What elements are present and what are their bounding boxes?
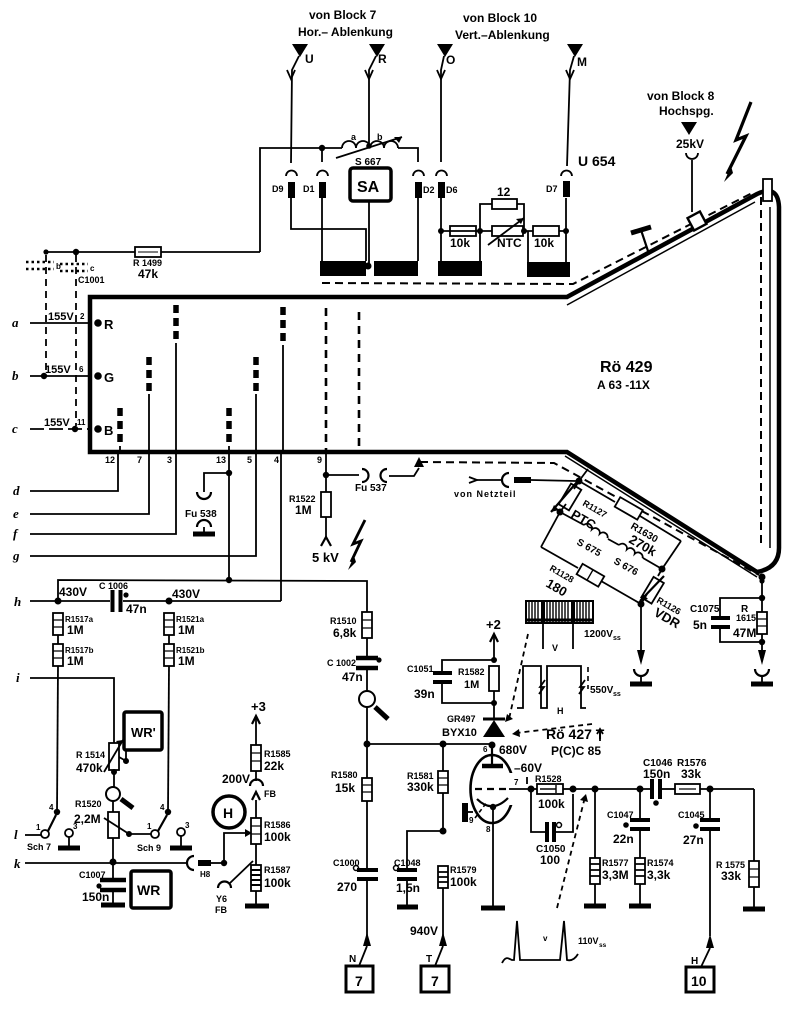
wire R1520 bottom to row k [112, 838, 114, 862]
node A PTC top [576, 478, 583, 485]
wire coating corner down [761, 577, 763, 598]
CRT inner thin glass line bottom funnel [565, 456, 757, 577]
triode anode [482, 745, 503, 766]
pin numbers [105, 455, 322, 465]
node dots network [438, 228, 444, 234]
capacitor C1047 22n [607, 789, 650, 846]
getter support mark [631, 227, 651, 251]
resistor R1517b 1M [53, 635, 94, 668]
svg-text:a: a [12, 315, 19, 330]
svg-text:von Block 10: von Block 10 [463, 11, 537, 25]
adjuster symbol (circle+stroke) [106, 770, 133, 812]
wire R1521b down to Sch9 [168, 666, 169, 812]
svg-text:22n: 22n [613, 832, 634, 846]
wire boost line top [260, 148, 342, 252]
node pin9 [323, 472, 329, 478]
wire right edge C2-C3 [662, 541, 681, 569]
potentiometer R1586 100k [251, 818, 291, 844]
svg-text:D1: D1 [303, 184, 315, 194]
node yoke junction left [365, 263, 372, 270]
wire C1045 to H10 [709, 829, 711, 936]
svg-text:6: 6 [483, 745, 488, 754]
connector FB with arrow [250, 771, 276, 818]
row c 155V B [12, 417, 113, 438]
svg-text:3: 3 [167, 455, 172, 465]
triode heater pin9 [462, 802, 487, 825]
svg-text:O: O [446, 53, 455, 67]
svg-text:v: v [543, 934, 548, 943]
svg-text:c: c [12, 421, 18, 436]
svg-text:b: b [12, 368, 19, 383]
potentiometer R1520 2,2M [74, 799, 129, 838]
svg-text:D6: D6 [446, 185, 458, 195]
svg-text:22k: 22k [264, 759, 284, 773]
svg-text:110V: 110V [578, 936, 599, 946]
diode D1 [303, 171, 328, 199]
CRT coating dashed line bottom [420, 462, 759, 575]
svg-text:M: M [577, 55, 587, 69]
svg-text:Vert.–Ablenkung: Vert.–Ablenkung [455, 28, 550, 42]
CRT inner thin glass line right [769, 207, 771, 548]
svg-text:7: 7 [514, 778, 519, 787]
svg-text:27n: 27n [683, 833, 704, 847]
svg-text:V: V [552, 643, 558, 653]
svg-text:10k: 10k [534, 236, 554, 250]
node +2 [491, 657, 497, 663]
row e wire to pin 7 [13, 454, 149, 521]
svg-text:Hor.– Ablenkung: Hor.– Ablenkung [298, 25, 393, 39]
svg-text:WR: WR [137, 882, 160, 898]
input arrow U [287, 44, 314, 163]
svg-text:150n: 150n [643, 767, 670, 781]
svg-text:550V: 550V [590, 685, 614, 696]
box WR' [124, 712, 162, 750]
grid dashed line second [358, 312, 361, 450]
svg-text:6,8k: 6,8k [333, 626, 357, 640]
node C1075 bottom [759, 639, 765, 645]
svg-text:C1048: C1048 [394, 858, 421, 868]
row a 155V R [12, 311, 114, 332]
resistor R1522 1M [289, 475, 331, 546]
svg-text:b: b [56, 262, 61, 271]
node E VDR bottom [638, 601, 645, 608]
svg-text:R1582: R1582 [458, 667, 485, 677]
svg-text:47n: 47n [342, 670, 363, 684]
svg-text:39n: 39n [414, 687, 435, 701]
gun electrode pin5 [253, 357, 259, 394]
svg-text:155V: 155V [45, 364, 71, 376]
capacitor C1046 150n [643, 758, 673, 806]
svg-text:H: H [691, 956, 698, 967]
svg-text:33k: 33k [721, 869, 741, 883]
svg-text:A 63 -11X: A 63 -11X [597, 378, 650, 392]
node C1045 branch [707, 786, 714, 793]
wire E down to ground [640, 604, 642, 652]
resistor R1582 1M [458, 666, 499, 703]
label Roe 427 T [546, 726, 605, 758]
svg-text:3: 3 [73, 822, 78, 831]
box WR [131, 871, 171, 908]
svg-text:6: 6 [79, 365, 84, 374]
resistor R1575 33k [716, 789, 765, 909]
svg-text:R1585: R1585 [264, 749, 291, 759]
resistor R1528 100k [531, 774, 573, 811]
varistor VDR R1126 [640, 569, 683, 632]
svg-text:GR497: GR497 [447, 714, 476, 724]
wire grid bus right [573, 788, 651, 790]
svg-text:C1051: C1051 [407, 664, 434, 674]
fuse holder Fu 538 [185, 473, 229, 534]
node Fu538 branch [226, 470, 232, 476]
node R1528 right [570, 786, 577, 793]
row b 155V G [12, 364, 114, 385]
arrow +3 supply [251, 699, 266, 745]
gun electrode pin7 [146, 357, 152, 394]
resistor R1517a 1M [53, 613, 94, 637]
node R1499 wire [73, 249, 79, 255]
svg-text:D2: D2 [423, 185, 435, 195]
svg-text:P(C)C 85: P(C)C 85 [551, 744, 601, 758]
triode grid pin7 [475, 777, 531, 789]
svg-text:R1528: R1528 [535, 774, 562, 784]
node below R1582 [491, 700, 497, 706]
dashed arrow H-waveform to diode [512, 724, 592, 737]
capacitor C1051 39n [407, 660, 494, 703]
svg-text:D7: D7 [546, 184, 558, 194]
svg-text:11: 11 [77, 418, 86, 427]
waveform H pulses 550Vss [517, 666, 621, 716]
svg-text:Sch 9: Sch 9 [137, 843, 161, 853]
resistor 10k right [533, 226, 559, 250]
input arrow O [437, 44, 455, 162]
deflection yoke block 4 [527, 262, 570, 277]
resistor R1128 180 [541, 547, 641, 604]
resistor R1580 15k [331, 744, 372, 868]
svg-text:e: e [13, 506, 19, 521]
capacitor C1002 47n [327, 638, 382, 684]
node B PTC bottom [557, 509, 564, 516]
capacitor C1006 47n [99, 581, 147, 616]
input arrow 25kV von Block 8 [676, 122, 704, 212]
box 7 right (T) [421, 966, 449, 992]
node row h right [166, 598, 173, 605]
svg-text:12: 12 [497, 185, 511, 199]
gun electrode pin3 [173, 305, 179, 343]
svg-text:270: 270 [337, 880, 357, 894]
lightning bolt high voltage [724, 102, 751, 182]
svg-text:10k: 10k [450, 236, 470, 250]
CRT picture tube Roe 429 outline [90, 179, 779, 572]
wire D1 down to yoke block [321, 198, 323, 261]
node row h left [55, 598, 62, 605]
svg-text:R1586: R1586 [264, 820, 291, 830]
lightning bolt 5kV [348, 520, 365, 570]
wire coil to D2 [398, 148, 418, 162]
svg-text:100k: 100k [264, 876, 291, 890]
node coating corner [759, 574, 766, 581]
svg-text:4: 4 [274, 455, 279, 465]
thermistor PTC R1127 [551, 481, 609, 533]
svg-text:3: 3 [185, 821, 190, 830]
capacitor C1048 1,5n [394, 831, 444, 907]
svg-text:U: U [305, 52, 314, 66]
node bus744 anode [489, 742, 496, 749]
capacitor C1007 150n [79, 862, 126, 905]
wire pin 13 down [228, 454, 230, 580]
svg-text:1M: 1M [67, 623, 84, 637]
svg-text:4: 4 [160, 803, 165, 812]
wiper R1514 to WR' [119, 750, 126, 761]
svg-text:1M: 1M [295, 503, 312, 517]
arrow +2 supply [486, 617, 501, 660]
dashed arrow 110Vss to grid bus [557, 794, 588, 908]
svg-text:47k: 47k [138, 267, 158, 281]
svg-text:47n: 47n [126, 602, 147, 616]
svg-text:1,5n: 1,5n [396, 881, 420, 895]
svg-text:430V: 430V [59, 585, 87, 599]
svg-text:4: 4 [49, 803, 54, 812]
svg-text:12: 12 [105, 455, 115, 465]
svg-text:2: 2 [80, 312, 85, 321]
row h wire [14, 594, 281, 609]
svg-text:15k: 15k [335, 781, 355, 795]
node H8 [221, 860, 227, 866]
resistor R1579 100k [438, 865, 477, 936]
row g wire to pin 5 [12, 454, 256, 563]
row d wire to pin 12 [13, 454, 118, 498]
wire H8 up to R1586 wiper [224, 833, 245, 863]
waveform 110Vss V spikes [502, 921, 607, 963]
diode D9 [272, 171, 297, 199]
svg-text:von Block 8: von Block 8 [647, 89, 715, 103]
svg-text:7: 7 [137, 455, 142, 465]
node bus744 left [364, 741, 371, 748]
svg-text:1: 1 [36, 823, 41, 832]
wire R1615 down [761, 642, 763, 652]
resistor R1521a 1M [164, 613, 205, 637]
svg-text:–60V: –60V [514, 761, 542, 775]
capacitor C1001 (stray, dashed) [26, 255, 105, 426]
wire pin 4 down to row h [280, 454, 282, 601]
diode D7 [546, 171, 572, 198]
svg-text:100k: 100k [264, 830, 291, 844]
node R1577 branch [592, 786, 599, 793]
node grid junction [528, 786, 535, 793]
svg-text:SA: SA [357, 179, 380, 196]
svg-text:7: 7 [431, 973, 439, 989]
resistor R1587 100k [245, 844, 291, 906]
svg-text:Hochspg.: Hochspg. [659, 104, 714, 118]
arrow into block 7 (N) [349, 932, 371, 966]
node row k R1520 [110, 859, 117, 866]
svg-text:7: 7 [355, 973, 363, 989]
resistor R1510 6,8k [330, 612, 372, 640]
430V bus wire [58, 580, 367, 612]
wire R1517b down to Sch7 [57, 666, 58, 812]
svg-text:100k: 100k [450, 875, 477, 889]
box SA (S667 assembly) [350, 168, 391, 201]
svg-text:G: G [104, 370, 114, 385]
dashed arrow V-waveform to diode [505, 634, 528, 722]
svg-text:g: g [12, 548, 20, 563]
capacitor C1075 5n [690, 598, 762, 642]
fuse holder Fu 537 [326, 468, 419, 494]
svg-text:2,2M: 2,2M [74, 812, 101, 826]
svg-text:Sch 7: Sch 7 [27, 842, 51, 852]
svg-text:C1001: C1001 [78, 275, 105, 285]
svg-text:5: 5 [247, 455, 252, 465]
arrow/connector/ground below R1615 [751, 650, 773, 684]
svg-text:1M: 1M [178, 654, 195, 668]
node 430V bus pin13 [226, 577, 232, 583]
deflection yoke block 2 [374, 261, 418, 276]
svg-text:von Block 7: von Block 7 [309, 8, 377, 22]
CRT coating dashed line top [322, 192, 754, 284]
svg-text:330k: 330k [407, 780, 434, 794]
svg-text:B: B [104, 423, 113, 438]
svg-text:N: N [349, 954, 356, 965]
svg-text:1200V: 1200V [584, 629, 613, 640]
deflection yoke block 1 [320, 261, 366, 276]
svg-text:BYX10: BYX10 [442, 727, 477, 739]
diode D2 [413, 171, 435, 199]
svg-text:h: h [14, 594, 21, 609]
svg-text:100: 100 [540, 853, 560, 867]
resistor 12 [480, 185, 524, 231]
svg-text:C1075: C1075 [690, 604, 720, 615]
wire bus 744 [367, 743, 492, 745]
svg-text:155V: 155V [44, 417, 70, 429]
resistor R1581 330k [407, 744, 448, 831]
capacitor C1050 100 [531, 789, 573, 867]
node C1075 top [759, 595, 765, 601]
resistor R1521b 1M [164, 635, 205, 668]
spark gap [359, 668, 388, 744]
svg-text:9: 9 [317, 455, 322, 465]
svg-text:3,3k: 3,3k [647, 868, 671, 882]
svg-text:C1000: C1000 [333, 858, 360, 868]
svg-text:FB: FB [264, 789, 276, 799]
node bus744 R1581 [440, 741, 447, 748]
CRT inner thin glass line top funnel [567, 202, 755, 305]
svg-text:R1587: R1587 [264, 865, 291, 875]
resistor R1585 22k [251, 745, 291, 773]
svg-text:H: H [223, 805, 233, 821]
electrode lead wires inside neck [120, 343, 283, 452]
svg-text:NTC: NTC [497, 236, 522, 250]
wire D7 down to resistor network [565, 198, 567, 231]
svg-text:R1520: R1520 [75, 799, 102, 809]
svg-text:155V: 155V [48, 311, 74, 323]
wires resistor network [441, 230, 566, 232]
wire node A to coating [579, 469, 588, 481]
node R1581 bottom [440, 828, 447, 835]
svg-text:ss: ss [613, 691, 621, 698]
svg-text:ss: ss [613, 635, 621, 642]
waveform V flyback blocks 1200Vss [526, 601, 621, 653]
diode GR497 BYX10 [442, 703, 505, 739]
connector Y6 FB [215, 861, 253, 915]
svg-text:8: 8 [486, 825, 491, 834]
svg-text:R: R [378, 52, 387, 66]
svg-text:k: k [14, 856, 21, 871]
svg-text:1: 1 [147, 822, 152, 831]
heater feed triangle on tube [414, 457, 424, 467]
svg-text:25kV: 25kV [676, 137, 704, 151]
resistor 10k left [450, 226, 476, 250]
gun electrode pin12 [117, 408, 123, 446]
svg-text:+3: +3 [251, 699, 266, 714]
svg-text:1615: 1615 [736, 613, 756, 623]
coils S675 S676 edge [560, 512, 662, 579]
triode PCC85 envelope [471, 755, 522, 823]
resistor R1615 47M [733, 598, 767, 642]
svg-text:100k: 100k [538, 797, 565, 811]
connector H8 [187, 856, 224, 879]
grid dashed line pin9 [325, 308, 328, 450]
circle H (brightness) [213, 796, 245, 828]
svg-text:1M: 1M [67, 654, 84, 668]
svg-text:Fu 538: Fu 538 [185, 509, 217, 520]
svg-text:i: i [16, 670, 20, 685]
wire D9 down to yoke junction [291, 198, 366, 261]
box 7 left (N) [346, 966, 373, 992]
svg-text:D9: D9 [272, 184, 284, 194]
node junction top wire D1 [319, 145, 325, 151]
svg-text:C1047: C1047 [607, 810, 634, 820]
wire D2 down to yoke block [417, 198, 419, 261]
svg-text:5 kV: 5 kV [312, 550, 339, 565]
resistor R1630 270k [579, 481, 681, 559]
svg-text:d: d [13, 483, 20, 498]
deflection yoke block 3 [438, 261, 482, 276]
switch Sch 9 [126, 803, 192, 853]
arrow/connector/ground below VDR [630, 650, 652, 684]
svg-text:430V: 430V [172, 587, 200, 601]
svg-text:WR': WR' [131, 725, 156, 740]
svg-text:l: l [14, 827, 18, 842]
svg-text:c: c [90, 264, 95, 273]
svg-text:R1580: R1580 [331, 770, 358, 780]
box 10 (to block 10) [686, 967, 714, 992]
svg-text:FB: FB [215, 905, 227, 915]
svg-text:47M: 47M [733, 626, 756, 640]
anode connector on funnel [688, 212, 707, 231]
svg-text:3,3M: 3,3M [602, 868, 629, 882]
switch Sch 7 [14, 803, 80, 852]
svg-text:R1510: R1510 [330, 616, 357, 626]
row f wire to pin 3 [13, 454, 176, 541]
svg-text:200V: 200V [222, 772, 250, 786]
row i wire [16, 670, 114, 743]
node C3 [659, 566, 666, 573]
thermistor NTC [488, 218, 524, 250]
coil S667 [336, 132, 402, 168]
svg-text:T: T [426, 954, 432, 965]
arrow into block 7 (T) [426, 932, 447, 966]
input arrow M [566, 44, 587, 166]
svg-text:Fu 537: Fu 537 [355, 483, 387, 494]
svg-text:b: b [377, 132, 383, 142]
svg-text:R: R [104, 317, 114, 332]
svg-text:13: 13 [216, 455, 226, 465]
svg-text:R1574: R1574 [647, 858, 674, 868]
svg-text:Rö 429: Rö 429 [600, 359, 653, 376]
arrow into block 10 [691, 934, 714, 967]
connector von Netzteil [454, 473, 576, 499]
svg-text:R1579: R1579 [450, 865, 477, 875]
svg-text:R 1514: R 1514 [76, 750, 105, 760]
